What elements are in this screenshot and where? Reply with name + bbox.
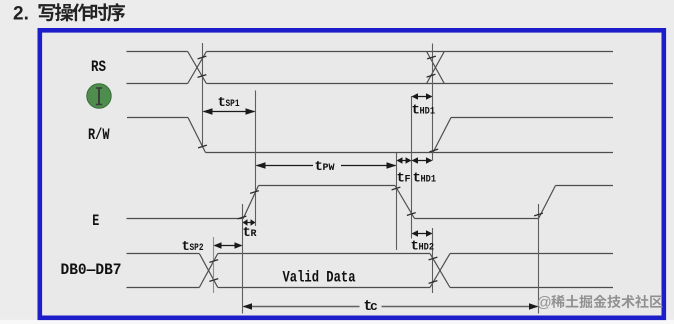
wire E high right <box>556 185 614 187</box>
wire R/W rising edge <box>433 118 451 153</box>
tick R/W rise bottom <box>429 149 438 152</box>
wire R/W falling edge <box>188 118 206 153</box>
svg-text:PW: PW <box>323 163 335 174</box>
dimension tSP1 <box>203 108 256 115</box>
svg-text:R/W: R/W <box>88 126 110 144</box>
label tHD2 <box>411 239 435 255</box>
svg-text:HD1: HD1 <box>421 175 437 186</box>
dimension tC <box>243 303 539 310</box>
wire R/W low <box>206 152 614 154</box>
wire E low left <box>127 218 244 220</box>
wire DB high right <box>450 253 613 255</box>
label tF <box>397 171 411 187</box>
label tHD1 lower <box>413 171 437 187</box>
wire RS low left <box>127 83 188 85</box>
wire DB low right <box>450 287 613 289</box>
marker V6 at E fall bottom <box>411 96 413 239</box>
dimension tHD1 upper <box>412 93 433 100</box>
tick E rise1 bottom <box>238 216 247 219</box>
dimension tHD1 lower <box>412 157 433 164</box>
marker V1 at RS X1 <box>202 43 204 147</box>
marker V7b at DB X2 <box>432 228 434 293</box>
wire RS low mid <box>206 83 613 85</box>
wire E rising edge 1 <box>243 186 258 219</box>
tick RS X1 upper <box>198 56 207 59</box>
svg-text:F: F <box>405 175 411 186</box>
label tR <box>243 225 257 241</box>
tick DB X1 lower <box>209 279 218 282</box>
tick DB X1 upper <box>209 260 218 263</box>
dimension tF <box>397 157 412 164</box>
title text 写操作时序 <box>38 4 55 21</box>
wire R/W high left <box>127 117 188 119</box>
svg-text:SP1: SP1 <box>226 99 240 110</box>
dimension tHD2 <box>412 230 433 237</box>
marker V7a at RS X2 <box>432 44 434 161</box>
label tHD1 upper <box>412 103 436 119</box>
watermark @稀土掘金技术社区 <box>537 294 663 311</box>
label tC <box>364 299 379 315</box>
wire E high mid <box>259 185 396 187</box>
tick DB X2 lower <box>429 281 438 284</box>
label tSP2 <box>182 239 204 255</box>
wire E rising edge 2 <box>539 186 556 219</box>
RS crossover X2 <box>427 52 445 84</box>
wire RS high mid <box>206 51 613 53</box>
tick E rise2 bottom <box>534 213 543 216</box>
tick E fall bottom <box>407 213 416 216</box>
dimension tPW <box>256 162 397 169</box>
dimension tR <box>243 219 256 226</box>
marker V4 at DB X1 <box>213 237 215 293</box>
svg-text:c: c <box>370 299 378 314</box>
svg-text:2.: 2. <box>13 4 29 25</box>
tick R/W fall bottom <box>198 145 207 148</box>
svg-text:DB0—DB7: DB0—DB7 <box>61 261 122 279</box>
svg-text:SP2: SP2 <box>190 243 204 254</box>
tick RS X2 lower <box>427 74 436 77</box>
wire RS high left <box>127 51 188 53</box>
tick DB X2 upper <box>429 257 438 260</box>
marker V3 at E rise bottom <box>242 204 244 314</box>
DB crossover X2 <box>430 254 450 288</box>
wire E low mid <box>415 218 539 220</box>
wire DB low left <box>127 287 200 289</box>
DB crossover X1 <box>199 254 218 288</box>
tick RS X1 lower <box>198 75 207 78</box>
cursor icon green circle <box>87 84 111 108</box>
dimension tSP2 <box>214 242 243 249</box>
RS crossover X1 <box>188 52 207 84</box>
wire R/W high right <box>451 117 613 119</box>
wire DB low valid <box>218 287 430 289</box>
svg-text:HD2: HD2 <box>419 243 435 254</box>
svg-text:Valid Data: Valid Data <box>283 269 356 287</box>
marker V2 at E rise top <box>255 91 257 227</box>
svg-text:R: R <box>251 229 257 240</box>
tick RS X2 upper <box>427 56 436 59</box>
marker V5 at E fall top <box>396 153 398 250</box>
marker V8 at E rise2 bottom <box>538 204 540 314</box>
label tSP1 <box>218 95 240 111</box>
wire DB high left <box>127 253 200 255</box>
svg-text:RS: RS <box>91 58 106 76</box>
label tPW <box>315 159 335 175</box>
tick E fall top <box>392 187 401 190</box>
svg-text:E: E <box>92 212 99 230</box>
tick E rise1 top <box>250 191 259 194</box>
svg-text:@: @ <box>537 294 552 311</box>
svg-text:HD1: HD1 <box>420 107 436 118</box>
wire E falling edge <box>395 186 415 219</box>
wire DB high valid <box>218 253 430 255</box>
